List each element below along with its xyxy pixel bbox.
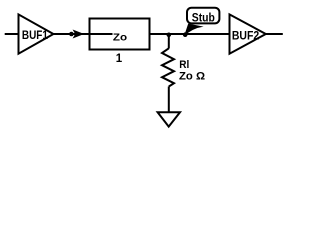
junction dot on BUF1 output xyxy=(69,32,74,37)
buffer BUF1 xyxy=(19,14,54,53)
ground xyxy=(158,112,180,126)
svg-text:BUF1: BUF1 xyxy=(22,28,48,42)
wire: Zo output to BUF2 xyxy=(150,33,229,35)
wire: input to BUF1 xyxy=(5,33,19,35)
callout balloon xyxy=(187,8,219,24)
node junction (wire to resistor tap) xyxy=(167,33,172,38)
svg-text:Rl: Rl xyxy=(179,59,189,71)
svg-text:1: 1 xyxy=(116,53,123,65)
callout tail dot xyxy=(183,32,188,37)
pin 1 lead inside Zo xyxy=(89,33,113,35)
buffer BUF2 xyxy=(230,14,266,53)
wire: junction down to resistor xyxy=(168,34,170,49)
svg-text:Zo: Zo xyxy=(113,33,127,44)
wire: resistor to ground xyxy=(168,87,170,113)
svg-text:BUF2: BUF2 xyxy=(232,28,260,42)
resistor Rl xyxy=(162,48,174,86)
signal-direction arrowhead xyxy=(74,31,82,37)
wire: BUF2 output xyxy=(266,33,283,35)
wire: BUF1 output xyxy=(53,33,89,35)
callout tail wedge xyxy=(184,24,204,36)
svg-text:Stub: Stub xyxy=(192,11,215,25)
transmission line Zo xyxy=(89,19,150,50)
callout Stub xyxy=(183,8,220,37)
svg-text:Zo Ω: Zo Ω xyxy=(179,71,205,83)
